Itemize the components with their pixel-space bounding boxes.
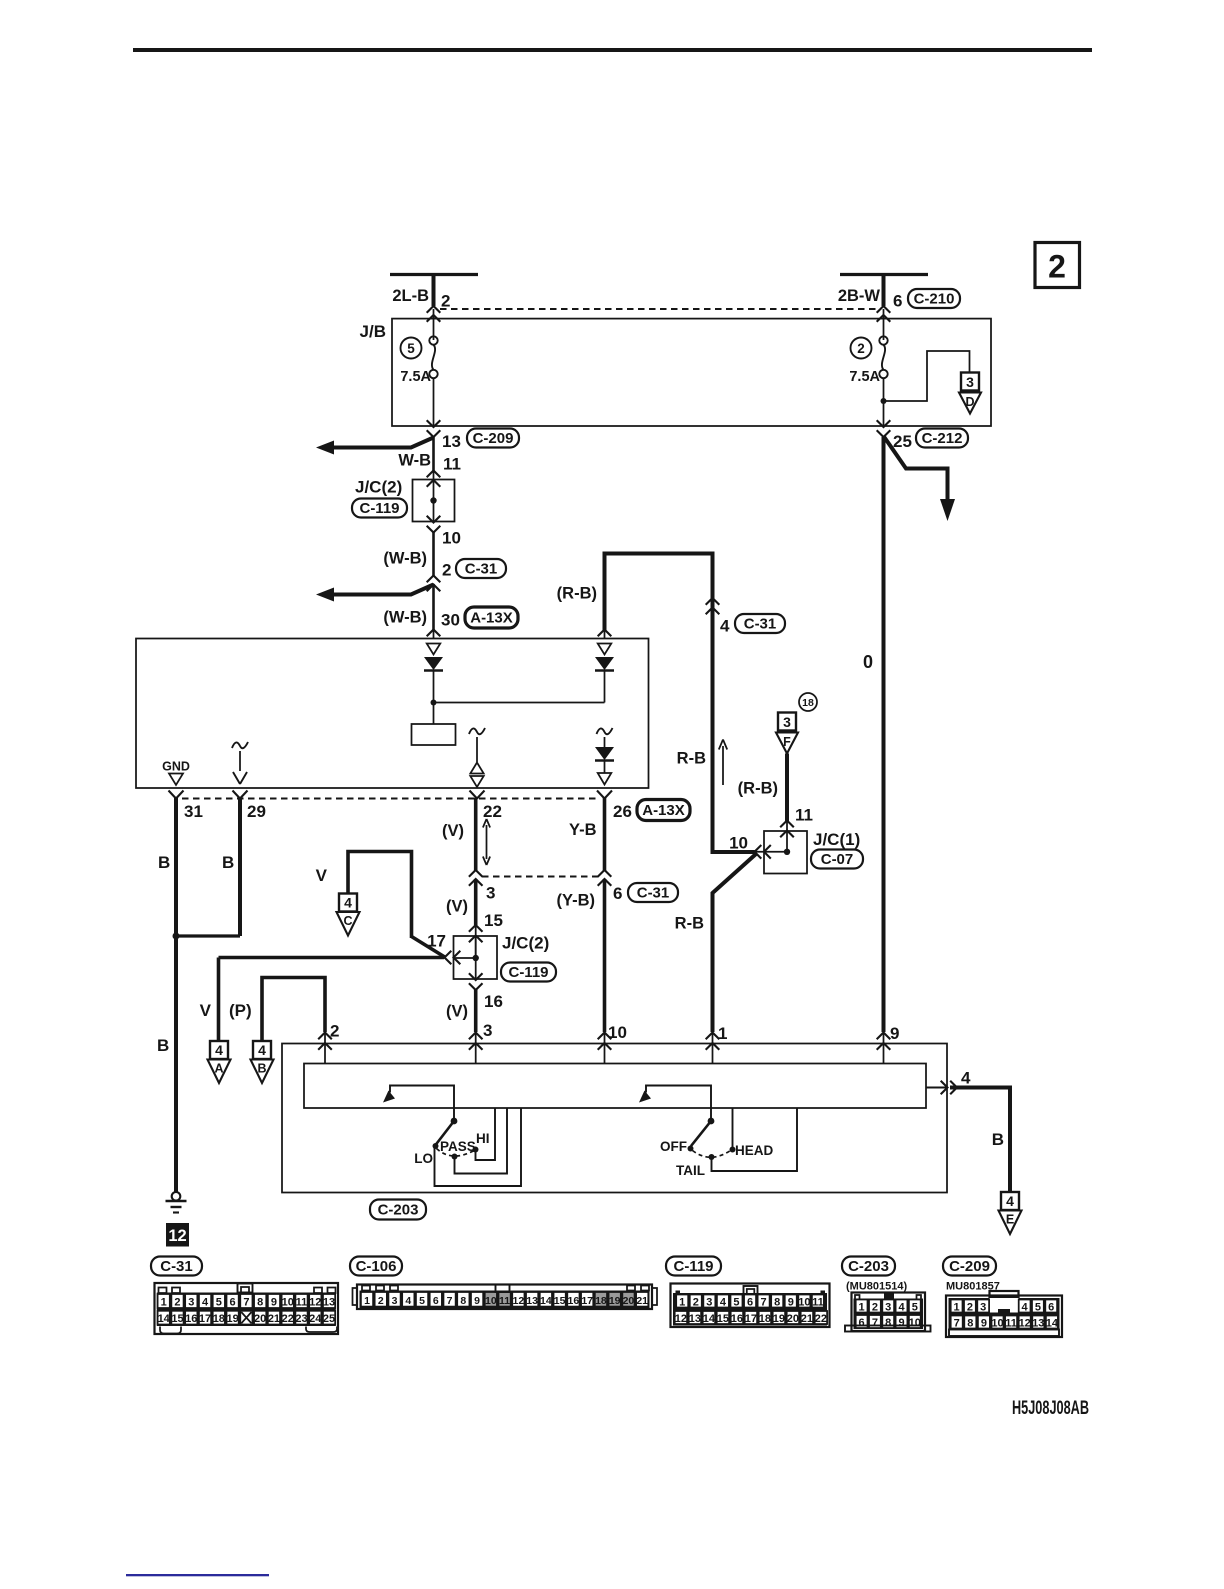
svg-text:R-B: R-B: [677, 750, 706, 768]
svg-text:OFF: OFF: [660, 1139, 687, 1154]
svg-text:6: 6: [747, 1296, 753, 1308]
svg-text:7.5A: 7.5A: [400, 369, 431, 385]
svg-text:23: 23: [295, 1313, 307, 1325]
svg-text:15: 15: [484, 911, 503, 930]
svg-text:3: 3: [966, 374, 974, 390]
svg-text:16: 16: [731, 1313, 743, 1325]
svg-text:25: 25: [323, 1313, 335, 1325]
svg-text:18: 18: [802, 697, 814, 709]
svg-text:11: 11: [443, 455, 461, 474]
svg-text:HI: HI: [476, 1131, 490, 1146]
svg-text:4: 4: [961, 1069, 971, 1088]
svg-text:D: D: [965, 395, 974, 409]
svg-text:C-31: C-31: [465, 561, 498, 578]
svg-text:C-210: C-210: [914, 291, 955, 308]
svg-text:5: 5: [419, 1295, 425, 1307]
svg-text:9: 9: [890, 1024, 899, 1043]
svg-text:B: B: [257, 1062, 266, 1076]
svg-text:B: B: [158, 853, 170, 872]
svg-text:3: 3: [486, 884, 495, 903]
svg-text:Y-B: Y-B: [569, 821, 597, 839]
svg-text:10: 10: [729, 834, 748, 853]
svg-text:W-B: W-B: [398, 452, 431, 470]
svg-text:7: 7: [954, 1317, 960, 1329]
svg-text:J/C(2): J/C(2): [502, 934, 549, 953]
svg-text:16: 16: [484, 992, 503, 1011]
svg-text:13: 13: [689, 1313, 701, 1325]
svg-text:(Y-B): (Y-B): [557, 892, 596, 910]
svg-text:C-119: C-119: [673, 1258, 713, 1275]
svg-text:2: 2: [441, 292, 450, 311]
svg-text:13: 13: [1032, 1317, 1044, 1329]
svg-text:16: 16: [568, 1295, 580, 1307]
svg-text:13: 13: [323, 1296, 335, 1308]
svg-text:5: 5: [1035, 1301, 1041, 1313]
svg-text:C: C: [343, 914, 352, 928]
svg-text:24: 24: [309, 1313, 322, 1325]
svg-text:12: 12: [513, 1295, 525, 1307]
svg-text:21: 21: [268, 1313, 280, 1325]
svg-text:8: 8: [257, 1296, 263, 1308]
svg-text:HEAD: HEAD: [735, 1143, 774, 1158]
svg-text:7: 7: [447, 1295, 453, 1307]
svg-text:4: 4: [344, 895, 352, 911]
svg-text:19: 19: [773, 1313, 785, 1325]
svg-text:10: 10: [485, 1295, 497, 1307]
svg-text:6: 6: [230, 1296, 236, 1308]
svg-text:J/C(2): J/C(2): [355, 478, 402, 497]
svg-text:26: 26: [613, 802, 632, 821]
svg-text:2: 2: [442, 561, 451, 580]
svg-text:GND: GND: [162, 760, 190, 774]
svg-text:(V): (V): [442, 822, 464, 840]
svg-text:11: 11: [1005, 1317, 1017, 1329]
svg-text:21: 21: [801, 1313, 813, 1325]
svg-text:15: 15: [717, 1313, 729, 1325]
svg-text:6: 6: [893, 292, 902, 311]
svg-text:2: 2: [174, 1296, 180, 1308]
svg-text:14: 14: [1046, 1317, 1059, 1329]
svg-text:11: 11: [499, 1295, 510, 1307]
svg-text:R-B: R-B: [675, 915, 704, 933]
svg-text:29: 29: [247, 802, 266, 821]
svg-text:8: 8: [967, 1317, 973, 1329]
svg-text:10: 10: [442, 529, 461, 548]
svg-text:18: 18: [213, 1313, 225, 1325]
svg-text:3: 3: [783, 714, 791, 730]
svg-text:22: 22: [282, 1313, 294, 1325]
svg-text:5: 5: [407, 341, 415, 356]
svg-text:8: 8: [885, 1317, 891, 1329]
svg-text:(MU801514): (MU801514): [846, 1281, 907, 1293]
svg-text:10: 10: [282, 1296, 294, 1308]
svg-text:4: 4: [405, 1295, 411, 1307]
svg-text:A-13X: A-13X: [642, 802, 685, 819]
svg-text:17: 17: [427, 932, 446, 951]
svg-text:18: 18: [759, 1313, 771, 1325]
svg-text:(R-B): (R-B): [738, 780, 778, 798]
svg-text:6: 6: [1048, 1301, 1054, 1313]
svg-text:25: 25: [893, 432, 912, 451]
svg-text:12: 12: [309, 1296, 321, 1308]
svg-text:1: 1: [679, 1296, 685, 1308]
svg-text:H5J08J08AB: H5J08J08AB: [1012, 1397, 1089, 1419]
svg-text:6: 6: [613, 884, 622, 903]
svg-text:12: 12: [675, 1313, 687, 1325]
svg-text:2: 2: [1048, 249, 1066, 285]
svg-text:15: 15: [171, 1313, 183, 1325]
svg-text:7: 7: [761, 1296, 767, 1308]
svg-text:8: 8: [460, 1295, 466, 1307]
svg-text:V: V: [200, 1001, 212, 1020]
svg-text:10: 10: [608, 1023, 627, 1042]
svg-text:1: 1: [364, 1295, 370, 1307]
svg-text:6: 6: [433, 1295, 439, 1307]
svg-text:(W-B): (W-B): [383, 550, 427, 568]
svg-text:7: 7: [872, 1317, 878, 1329]
svg-text:B: B: [222, 853, 234, 872]
svg-text:17: 17: [199, 1313, 211, 1325]
svg-text:C-203: C-203: [848, 1258, 889, 1275]
svg-text:10: 10: [991, 1317, 1003, 1329]
svg-text:(V): (V): [446, 1003, 468, 1021]
svg-text:3: 3: [188, 1296, 194, 1308]
svg-text:3: 3: [980, 1301, 986, 1313]
svg-text:5: 5: [216, 1296, 222, 1308]
svg-text:5: 5: [912, 1301, 918, 1313]
svg-text:30: 30: [441, 611, 460, 630]
svg-text:(W-B): (W-B): [383, 609, 427, 627]
svg-text:C-07: C-07: [821, 851, 854, 868]
svg-text:C-31: C-31: [160, 1258, 193, 1275]
svg-text:15: 15: [554, 1295, 566, 1307]
svg-text:6: 6: [859, 1317, 865, 1329]
svg-text:2: 2: [693, 1296, 699, 1308]
svg-text:13: 13: [442, 432, 461, 451]
svg-text:7: 7: [243, 1296, 249, 1308]
svg-text:11: 11: [795, 806, 813, 825]
svg-text:1: 1: [954, 1301, 960, 1313]
svg-text:E: E: [1006, 1213, 1014, 1227]
svg-text:10: 10: [798, 1296, 810, 1308]
svg-text:A-13X: A-13X: [470, 610, 513, 627]
svg-text:C-203: C-203: [378, 1202, 419, 1219]
svg-text:7.5A: 7.5A: [849, 369, 880, 385]
svg-text:V: V: [316, 866, 328, 885]
svg-text:19: 19: [609, 1295, 621, 1307]
svg-text:4: 4: [898, 1301, 905, 1313]
svg-text:8: 8: [774, 1296, 780, 1308]
svg-text:16: 16: [185, 1313, 197, 1325]
svg-text:C-31: C-31: [744, 616, 777, 633]
svg-text:2: 2: [872, 1301, 878, 1313]
svg-text:11: 11: [296, 1296, 308, 1308]
svg-text:B: B: [157, 1036, 169, 1055]
svg-text:C-119: C-119: [508, 964, 548, 981]
svg-text:13: 13: [526, 1295, 538, 1307]
svg-text:20: 20: [623, 1295, 635, 1307]
svg-text:3: 3: [706, 1296, 712, 1308]
svg-text:2L-B: 2L-B: [392, 287, 429, 305]
svg-text:1: 1: [161, 1296, 167, 1308]
svg-text:F: F: [783, 735, 791, 749]
svg-text:4: 4: [1006, 1193, 1014, 1209]
svg-text:11: 11: [812, 1296, 824, 1308]
svg-text:12: 12: [1019, 1317, 1031, 1329]
svg-text:A: A: [214, 1062, 223, 1076]
svg-text:19: 19: [226, 1313, 238, 1325]
svg-text:1: 1: [859, 1301, 865, 1313]
svg-text:4: 4: [720, 1296, 727, 1308]
svg-text:4: 4: [215, 1042, 223, 1058]
svg-text:1: 1: [718, 1024, 727, 1043]
svg-text:PASS: PASS: [440, 1139, 476, 1154]
svg-text:(R-B): (R-B): [557, 585, 597, 603]
svg-text:J/C(1): J/C(1): [813, 830, 860, 849]
svg-text:14: 14: [703, 1313, 716, 1325]
svg-text:C-209: C-209: [949, 1258, 990, 1275]
svg-text:3: 3: [392, 1295, 398, 1307]
svg-text:C-119: C-119: [359, 500, 399, 517]
svg-text:14: 14: [158, 1313, 171, 1325]
svg-text:12: 12: [168, 1227, 186, 1245]
svg-text:C-31: C-31: [637, 885, 670, 902]
svg-text:4: 4: [720, 617, 730, 636]
svg-text:(V): (V): [446, 898, 468, 916]
svg-text:9: 9: [271, 1296, 277, 1308]
svg-text:22: 22: [483, 802, 502, 821]
svg-text:4: 4: [202, 1296, 209, 1308]
svg-text:3: 3: [483, 1021, 492, 1040]
svg-text:21: 21: [636, 1295, 648, 1307]
svg-text:J/B: J/B: [360, 322, 386, 341]
svg-text:9: 9: [788, 1296, 794, 1308]
svg-text:0: 0: [863, 652, 873, 672]
svg-text:4: 4: [1022, 1301, 1029, 1313]
svg-text:C-106: C-106: [356, 1258, 397, 1275]
svg-text:4: 4: [258, 1042, 266, 1058]
svg-text:C-209: C-209: [473, 430, 514, 447]
svg-text:LO: LO: [414, 1151, 433, 1166]
svg-text:B: B: [992, 1130, 1004, 1149]
svg-text:18: 18: [595, 1295, 607, 1307]
svg-text:17: 17: [745, 1313, 757, 1325]
svg-text:22: 22: [815, 1313, 827, 1325]
svg-text:2: 2: [378, 1295, 384, 1307]
svg-text:(P): (P): [229, 1001, 252, 1020]
svg-text:20: 20: [787, 1313, 799, 1325]
svg-text:14: 14: [540, 1295, 552, 1307]
svg-text:5: 5: [733, 1296, 739, 1308]
svg-text:17: 17: [581, 1295, 593, 1307]
svg-text:2: 2: [967, 1301, 973, 1313]
svg-text:2: 2: [857, 341, 865, 356]
svg-text:9: 9: [474, 1295, 480, 1307]
svg-text:9: 9: [981, 1317, 987, 1329]
svg-text:31: 31: [184, 802, 203, 821]
svg-text:2B-W: 2B-W: [838, 287, 881, 305]
svg-text:10: 10: [909, 1317, 921, 1329]
svg-text:20: 20: [254, 1313, 266, 1325]
svg-text:3: 3: [885, 1301, 891, 1313]
svg-text:9: 9: [898, 1317, 904, 1329]
svg-text:TAIL: TAIL: [676, 1163, 705, 1178]
svg-text:C-212: C-212: [922, 430, 963, 447]
